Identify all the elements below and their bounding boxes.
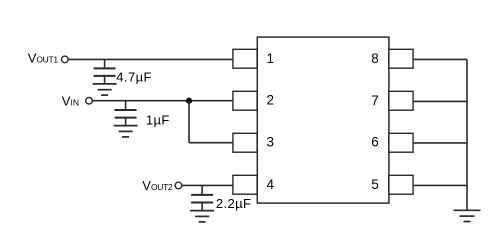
node junction dot on VIN <box>186 98 192 104</box>
svg-text:4.7µF: 4.7µF <box>116 70 152 85</box>
capacitor C1 plates <box>94 67 116 69</box>
pin 7 box <box>389 91 413 110</box>
svg-text:1: 1 <box>266 51 274 66</box>
ground below C1 <box>93 83 117 85</box>
terminal VOUT2 <box>175 182 182 189</box>
svg-text:4: 4 <box>266 177 274 192</box>
capacitor C3 lead <box>201 185 203 195</box>
terminal VIN <box>86 97 93 104</box>
wire VOUT2 to pin 4 <box>182 184 233 186</box>
capacitor C2 lower lead <box>125 118 127 126</box>
wire VIN to pin 2 <box>92 100 233 102</box>
pin 4 box <box>233 175 257 194</box>
pin 1 box <box>233 49 257 68</box>
wire junction down <box>188 101 190 143</box>
pin 5 box <box>389 175 413 194</box>
capacitor C1 lower lead <box>104 76 106 84</box>
wire VOUT1 to pin 1 <box>68 58 233 60</box>
capacitor C1 lead <box>104 59 106 68</box>
ground right bus <box>454 209 481 211</box>
svg-text:VOUT1: VOUT1 <box>28 50 59 65</box>
terminal VOUT1 <box>62 56 69 63</box>
wire pin 6 to bus <box>413 142 467 144</box>
ground below C3 <box>190 210 214 212</box>
svg-text:1µF: 1µF <box>146 113 170 128</box>
svg-text:VIN: VIN <box>62 94 79 109</box>
pin 6 box <box>389 133 413 152</box>
wire pin 7 to bus <box>413 100 467 102</box>
wire right bus vertical <box>466 59 468 210</box>
svg-text:3: 3 <box>266 135 274 150</box>
svg-text:VOUT2: VOUT2 <box>142 178 173 193</box>
op-amp U1 (8-pin IC body) <box>257 37 389 203</box>
wire pin 5 to bus <box>413 184 467 186</box>
svg-text:5: 5 <box>371 177 379 192</box>
wire pin 8 to bus <box>413 58 467 60</box>
wire to pin 3 <box>189 142 233 144</box>
svg-text:8: 8 <box>371 51 379 66</box>
svg-text:2: 2 <box>266 93 274 108</box>
pin 2 box <box>233 91 257 110</box>
pin 8 box <box>389 49 413 68</box>
svg-text:6: 6 <box>371 135 379 150</box>
svg-text:2.2µF: 2.2µF <box>216 196 252 211</box>
ground below C2 <box>114 125 138 127</box>
capacitor C2 lead <box>125 101 127 110</box>
capacitor C3 lower lead <box>201 203 203 211</box>
pin 3 box <box>233 133 257 152</box>
capacitor C3 plates <box>191 194 213 196</box>
capacitor C2 plates <box>115 109 137 111</box>
svg-text:7: 7 <box>371 93 379 108</box>
